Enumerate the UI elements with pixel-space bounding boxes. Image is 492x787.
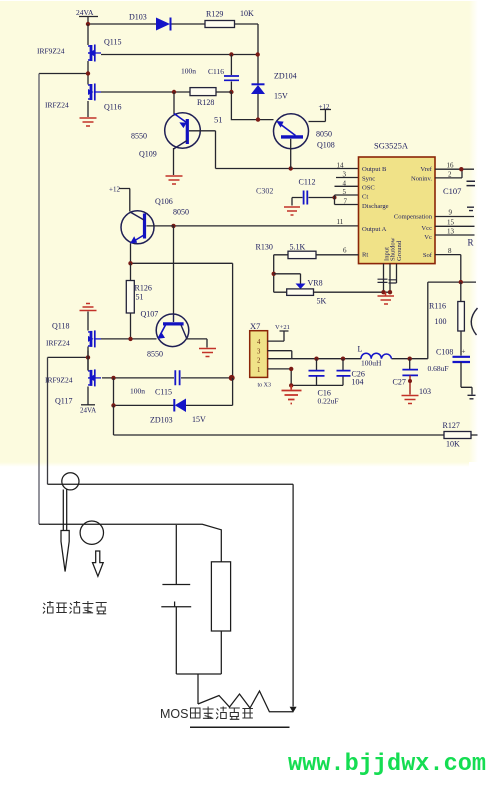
svg-text:2: 2 bbox=[448, 171, 452, 179]
wire probe line A bbox=[48, 483, 294, 485]
svg-text:X7: X7 bbox=[250, 321, 260, 331]
node 24VA bottom bbox=[81, 404, 95, 406]
svg-text:0.68uF: 0.68uF bbox=[428, 364, 449, 373]
svg-text:100: 100 bbox=[435, 317, 447, 326]
probe needle bbox=[63, 490, 66, 531]
svg-text:Ct: Ct bbox=[362, 194, 368, 201]
arc right edge bbox=[471, 308, 477, 335]
node test point circle 2 bbox=[80, 521, 103, 544]
svg-text:3: 3 bbox=[257, 349, 261, 356]
svg-text:10K: 10K bbox=[240, 9, 254, 18]
svg-text:R126: R126 bbox=[135, 284, 152, 293]
arrowhead at line end bbox=[290, 707, 297, 713]
capacitor C26 bbox=[342, 359, 344, 386]
svg-text:D103: D103 bbox=[129, 13, 147, 22]
mosfet Q116 IRFZ24 bbox=[88, 84, 101, 101]
wire gate rail Q118 bbox=[101, 338, 157, 340]
wire output rail bbox=[268, 282, 428, 359]
capacitor C115 bbox=[102, 377, 232, 379]
svg-text:4: 4 bbox=[257, 339, 261, 346]
node gate junctions bbox=[229, 52, 233, 56]
capacitor C112 bbox=[304, 191, 308, 205]
svg-text:R127: R127 bbox=[443, 421, 460, 430]
svg-text:C27: C27 bbox=[393, 378, 406, 387]
wire long left vertical bbox=[38, 74, 40, 525]
svg-text:Q118: Q118 bbox=[52, 322, 69, 331]
svg-text:Vref: Vref bbox=[420, 166, 432, 173]
underline bbox=[190, 726, 290, 728]
wire pin8 node line bbox=[428, 281, 476, 283]
IC U1 SG3525A bbox=[359, 157, 436, 264]
svg-text:ZD103: ZD103 bbox=[150, 416, 173, 425]
svg-text:15V: 15V bbox=[274, 92, 288, 101]
svg-text:Q106: Q106 bbox=[155, 197, 173, 206]
svg-text:5: 5 bbox=[343, 188, 347, 196]
svg-text:MOS: MOS bbox=[160, 707, 188, 721]
svg-text:+12: +12 bbox=[319, 103, 330, 111]
svg-text:Q115: Q115 bbox=[104, 38, 121, 47]
svg-text:11: 11 bbox=[337, 218, 344, 226]
svg-text:+: + bbox=[462, 348, 466, 356]
resistor R128 bbox=[190, 88, 216, 96]
wire X7 pin1 to ground rail bbox=[268, 369, 343, 386]
ground X7 rail bbox=[282, 385, 302, 403]
wire C116 bottom to Q108 emitter bbox=[231, 92, 273, 120]
capacitor C16 bbox=[316, 359, 318, 386]
node junction 24VA rail bbox=[86, 22, 90, 26]
wire top rail bbox=[88, 24, 258, 84]
transformer winding zigzag bbox=[198, 691, 293, 712]
arrow marker bbox=[93, 551, 104, 576]
wire Q106 emitter rail down to C115 node bbox=[131, 263, 233, 377]
potentiometer VR8 5K bbox=[274, 274, 301, 284]
svg-text:C107: C107 bbox=[443, 186, 461, 196]
diode D103 bbox=[156, 18, 170, 31]
svg-text:R: R bbox=[468, 238, 474, 248]
svg-text:1: 1 bbox=[257, 367, 260, 374]
svg-text:51: 51 bbox=[136, 293, 144, 302]
wire bottom rail to R127 bbox=[114, 405, 445, 435]
svg-text:5K: 5K bbox=[317, 297, 327, 306]
svg-text:C302: C302 bbox=[256, 187, 273, 196]
svg-text:ZD104: ZD104 bbox=[274, 72, 297, 81]
svg-text:Compensation: Compensation bbox=[394, 214, 433, 221]
svg-text:Q116: Q116 bbox=[104, 103, 121, 112]
svg-text:3: 3 bbox=[343, 171, 347, 179]
svg-text:51: 51 bbox=[214, 115, 223, 125]
wire Q115 gate line bbox=[101, 54, 258, 56]
svg-text:SG3525A: SG3525A bbox=[374, 141, 409, 151]
svg-text:14: 14 bbox=[337, 162, 345, 170]
svg-text:to X3: to X3 bbox=[258, 383, 272, 389]
svg-text:Q108: Q108 bbox=[317, 141, 335, 150]
svg-text:Sof: Sof bbox=[423, 252, 433, 259]
svg-text:103: 103 bbox=[419, 387, 431, 396]
svg-text:4: 4 bbox=[343, 180, 347, 188]
svg-text:Noninv.: Noninv. bbox=[411, 176, 432, 183]
svg-text:IRF9Z24: IRF9Z24 bbox=[37, 47, 65, 56]
transistor Q107 8550 bbox=[173, 226, 175, 315]
capacitor (bottom diagram) bbox=[161, 525, 191, 674]
svg-text:Vc: Vc bbox=[424, 234, 432, 241]
svg-text:2: 2 bbox=[257, 358, 261, 365]
resistor R116 bbox=[458, 302, 465, 332]
svg-text:C116: C116 bbox=[208, 67, 224, 76]
wire probe line B bbox=[39, 524, 221, 562]
svg-text:Rt: Rt bbox=[362, 252, 368, 259]
watermark www.bjjdwx.com bbox=[288, 751, 486, 778]
wire 24VA tick bbox=[79, 17, 98, 25]
label 波形测试点 bbox=[43, 601, 107, 614]
wire pin14 line bbox=[216, 168, 359, 170]
svg-text:+12: +12 bbox=[109, 186, 120, 194]
svg-text:IRFZ24: IRFZ24 bbox=[45, 101, 69, 110]
svg-text:8550: 8550 bbox=[147, 350, 163, 359]
svg-text:Q109: Q109 bbox=[139, 150, 157, 159]
svg-text:15: 15 bbox=[447, 219, 455, 227]
wire second left vertical bbox=[47, 357, 49, 484]
wire pin11 line bbox=[174, 225, 359, 227]
svg-text:R116: R116 bbox=[429, 302, 446, 311]
wire IC right pins bbox=[435, 169, 475, 282]
svg-text:13: 13 bbox=[447, 228, 455, 236]
svg-text:100uH: 100uH bbox=[361, 359, 382, 368]
svg-text:www.bjjdwx.com: www.bjjdwx.com bbox=[288, 751, 486, 778]
svg-text:8550: 8550 bbox=[131, 132, 147, 141]
svg-text:8050: 8050 bbox=[316, 130, 332, 139]
svg-text:16: 16 bbox=[447, 162, 455, 170]
zener ZD103 15V bbox=[114, 378, 233, 406]
capacitor C116 bbox=[230, 55, 232, 93]
wire right drop to transformer bbox=[292, 484, 294, 706]
zener ZD104 15V bbox=[251, 85, 265, 94]
svg-text:0.22uF: 0.22uF bbox=[318, 397, 339, 406]
svg-text:Ground: Ground bbox=[396, 240, 403, 261]
ground below IC pins bbox=[378, 292, 395, 304]
svg-text:Output B: Output B bbox=[362, 166, 387, 173]
ground below C112 bbox=[284, 207, 300, 215]
svg-text:VR8: VR8 bbox=[308, 279, 323, 288]
svg-text:V+21: V+21 bbox=[275, 324, 290, 331]
wire Q116 gate to R128 bbox=[101, 91, 190, 93]
svg-text:Discharge: Discharge bbox=[362, 203, 389, 210]
svg-text:24VA: 24VA bbox=[80, 407, 96, 415]
svg-text:5.1K: 5.1K bbox=[290, 243, 306, 252]
svg-text:Vcc: Vcc bbox=[421, 225, 432, 232]
ground right of Q107 bbox=[199, 349, 216, 357]
svg-text:15V: 15V bbox=[192, 415, 206, 424]
svg-text:R128: R128 bbox=[197, 98, 214, 107]
transistor Q109 8550 bbox=[173, 92, 175, 114]
wire IC left stubs pins 3 4 5 7 bbox=[335, 178, 359, 205]
transistor Q108 8050 bbox=[274, 114, 309, 149]
svg-text:Q117: Q117 bbox=[55, 397, 72, 406]
svg-text:10K: 10K bbox=[446, 440, 460, 449]
svg-text:OSC: OSC bbox=[362, 185, 375, 192]
resistor R127 bbox=[444, 432, 471, 439]
capacitor C27 bbox=[409, 359, 411, 370]
mosfet Q117 IRF9Z24 bbox=[88, 369, 101, 386]
svg-text:Sync: Sync bbox=[362, 176, 375, 183]
ground below Q109 bbox=[166, 176, 183, 184]
svg-text:6: 6 bbox=[343, 247, 347, 255]
svg-text:L: L bbox=[358, 345, 363, 354]
wire output node to left bbox=[39, 73, 88, 75]
capacitor C107 bbox=[467, 181, 476, 185]
inductor L 100uH bbox=[361, 353, 392, 358]
resistor R126 bbox=[126, 281, 134, 314]
svg-text:104: 104 bbox=[352, 378, 364, 387]
svg-text:R130: R130 bbox=[256, 243, 273, 252]
svg-text:IRF9Z24: IRF9Z24 bbox=[45, 376, 73, 385]
svg-text:9: 9 bbox=[449, 209, 453, 217]
mosfet Q118 IRFZ24 bbox=[88, 330, 101, 347]
wire Q118 drain stub bbox=[87, 312, 89, 405]
schematic yellow background bbox=[0, 1, 469, 462]
svg-text:IRFZ24: IRFZ24 bbox=[46, 339, 70, 348]
svg-text:C115: C115 bbox=[155, 388, 172, 397]
resistor R129 bbox=[205, 21, 235, 28]
svg-text:R129: R129 bbox=[206, 10, 223, 19]
svg-text:100n: 100n bbox=[181, 67, 196, 76]
svg-text:7: 7 bbox=[344, 198, 348, 206]
wire output pair to left vertical bbox=[48, 356, 89, 358]
wire X7 pin3 bbox=[268, 351, 292, 359]
wire IC bottom pins bbox=[384, 264, 397, 293]
mosfet Q115 IRF9Z24 bbox=[88, 45, 101, 62]
node test point circle 1 bbox=[62, 473, 79, 490]
wire main left vertical 24VA bus bbox=[87, 24, 89, 117]
svg-text:C112: C112 bbox=[299, 178, 316, 187]
svg-text:Output A: Output A bbox=[362, 226, 387, 233]
svg-text:C108: C108 bbox=[436, 348, 453, 357]
resistor (bottom diagram) bbox=[211, 562, 230, 631]
svg-text:8050: 8050 bbox=[173, 208, 189, 217]
svg-text:8: 8 bbox=[448, 247, 452, 255]
svg-text:24VA: 24VA bbox=[76, 8, 94, 17]
svg-text:Q107: Q107 bbox=[141, 310, 159, 319]
ground below Q116 bbox=[80, 118, 97, 126]
ground above Q118 (inverted) bbox=[80, 304, 97, 311]
capacitor C108 bbox=[453, 357, 471, 362]
svg-text:100n: 100n bbox=[130, 387, 145, 396]
